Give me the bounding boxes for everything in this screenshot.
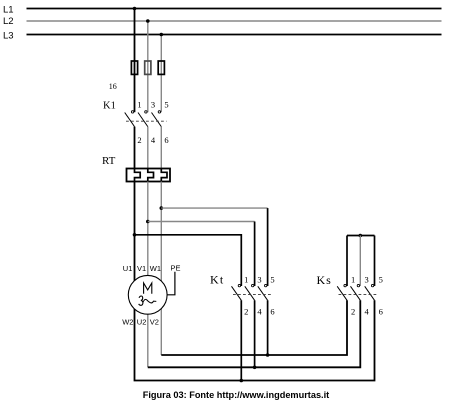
contactor Ks pole2 contact — [351, 284, 361, 300]
wire phase1 RT to motor and W2 loop to Ks pole3 — [135, 182, 375, 381]
wire phase2 K1 to RT — [147, 127, 149, 169]
wire phase1 branch to Kt pole1 — [135, 235, 242, 286]
svg-text:K1: K1 — [103, 100, 116, 111]
contactor K1 pole2 contact — [138, 111, 148, 127]
contactor Kt pole3 contact — [258, 284, 268, 300]
node phase1-L1 junction — [133, 7, 137, 11]
Kt mechanical linkage dashed — [233, 294, 272, 296]
svg-text:Figura 03: Fonte http://www.in: Figura 03: Fonte http://www.ingdemurtas.… — [143, 390, 329, 400]
wire Ks pole1 drop — [346, 236, 348, 287]
svg-text:Kt: Kt — [210, 273, 224, 287]
svg-text:5: 5 — [270, 274, 274, 284]
wire phase2 RT to motor — [147, 182, 149, 368]
wire PE to motor — [167, 272, 175, 295]
svg-text:V2: V2 — [150, 318, 159, 327]
svg-text:U2: U2 — [137, 318, 147, 327]
svg-text:Ks: Ks — [317, 273, 332, 287]
svg-text:4: 4 — [257, 307, 262, 317]
svg-text:2: 2 — [137, 135, 141, 145]
wire phase3 K1 to RT — [160, 127, 162, 169]
svg-text:L2: L2 — [3, 16, 14, 27]
RT heater element phase3 — [161, 169, 167, 182]
wire phase3 RT to motor — [160, 182, 162, 356]
contactor K1 pole3 contact — [152, 111, 162, 127]
svg-text:6: 6 — [164, 135, 168, 145]
svg-text:6: 6 — [379, 307, 383, 317]
wire Ks pole2 drop — [359, 236, 361, 287]
bus L1 wire — [27, 8, 442, 10]
motor letter M — [144, 283, 152, 294]
K1 mechanical linkage dashed — [126, 120, 167, 122]
bus L2 wire — [27, 20, 442, 22]
svg-text:3: 3 — [365, 274, 369, 284]
svg-text:V1: V1 — [137, 264, 146, 273]
node phase2 branch — [146, 220, 150, 224]
contactor Kt pole1 contact — [232, 284, 242, 300]
contactor K1 pole1 contact — [125, 111, 135, 127]
wire phase2 branch to Kt pole2 — [148, 221, 255, 223]
svg-text:5: 5 — [164, 99, 168, 109]
wire Kt pole3 to V2 line — [267, 300, 269, 355]
wire phase2 from L2 to K1 — [147, 21, 149, 112]
wire V2 loop to Ks pole1 — [161, 300, 347, 355]
node Kt pole2 U2 junction — [253, 366, 257, 370]
fuse F1 — [131, 61, 137, 74]
svg-text:L1: L1 — [3, 5, 14, 16]
svg-text:RT: RT — [102, 155, 116, 167]
wire phase1 K1 to RT — [134, 127, 136, 169]
wire phase1 from L1 to K1 — [134, 9, 136, 113]
fuse F3 — [158, 61, 164, 74]
motor M circle — [128, 275, 167, 314]
contactor Kt pole2 contact — [245, 284, 255, 300]
svg-text:W1: W1 — [150, 264, 161, 273]
wire Kt pole2 drop — [254, 222, 256, 287]
node Ks star point — [359, 234, 363, 238]
svg-text:2: 2 — [351, 307, 355, 317]
motor text 3 — [139, 296, 143, 305]
svg-text:16: 16 — [109, 82, 117, 91]
svg-text:W2: W2 — [122, 318, 133, 327]
node phase3-L3 junction — [160, 33, 164, 37]
svg-text:3: 3 — [257, 274, 261, 284]
node phase2-L2 junction — [146, 19, 150, 23]
wire phase3 from L3 to K1 — [160, 35, 162, 113]
contactor Ks pole1 contact — [337, 284, 347, 300]
wire Kt pole2 to U2 line — [254, 300, 256, 367]
RT heater element phase1 — [135, 169, 141, 182]
Ks star bar — [347, 235, 375, 237]
contactor Ks pole3 contact — [365, 284, 375, 300]
wire Ks pole3 drop — [374, 236, 376, 287]
node Kt pole3 V2 junction — [266, 353, 270, 357]
svg-text:1: 1 — [137, 99, 141, 109]
motor tilde ~ — [143, 299, 156, 303]
svg-text:6: 6 — [270, 307, 274, 317]
RT heater element phase2 — [148, 169, 154, 182]
svg-text:L3: L3 — [3, 31, 14, 42]
bus L3 wire — [27, 34, 442, 36]
wire Kt pole3 drop — [267, 208, 269, 286]
svg-text:1: 1 — [351, 274, 355, 284]
node Kt pole1 W2 junction — [240, 379, 244, 383]
svg-text:2: 2 — [244, 307, 248, 317]
thermal relay RT box — [127, 169, 171, 182]
wire U2 loop to Ks pole2 — [148, 300, 360, 367]
Ks mechanical linkage dashed — [339, 294, 379, 296]
svg-text:4: 4 — [151, 135, 156, 145]
wire phase3 branch to Kt pole3 — [161, 207, 267, 209]
svg-text:PE: PE — [171, 264, 181, 273]
svg-text:1: 1 — [244, 274, 248, 284]
svg-text:5: 5 — [379, 274, 383, 284]
svg-text:U1: U1 — [123, 264, 133, 273]
wire Kt pole1 to W2 line — [240, 300, 242, 380]
node phase1 branch — [133, 233, 137, 237]
svg-text:3: 3 — [151, 99, 155, 109]
node phase3 branch — [160, 206, 164, 210]
fuse F2 — [145, 61, 151, 74]
